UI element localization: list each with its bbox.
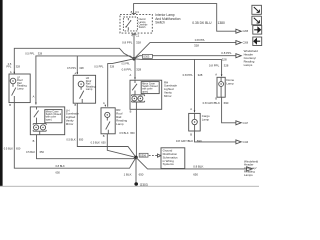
svg-text:Switch (Closed: Switch (Closed [142, 85, 158, 88]
svg-text:0.8 BLK: 0.8 BLK [193, 164, 203, 168]
wire: dome lamp drop [221, 59, 223, 76]
svg-text:0.5 PPL: 0.5 PPL [122, 63, 131, 65]
wire LH vanity B down and right [37, 135, 137, 159]
svg-text:328: 328 [194, 44, 199, 48]
svg-text:A: A [74, 71, 76, 75]
wire splice down to ground G303 [135, 157, 137, 183]
svg-text:B: B [33, 139, 35, 143]
svg-text:A: A [103, 101, 105, 105]
svg-text:open): open) [46, 119, 52, 121]
svg-text:with cover: with cover [142, 88, 153, 91]
svg-text:0.8 PPL: 0.8 PPL [183, 73, 194, 77]
open arrow to windshield header lamps [236, 54, 241, 58]
svg-text:650: 650 [193, 172, 198, 176]
open arrow C417 dome [236, 121, 241, 125]
svg-text:328: 328 [136, 67, 141, 71]
svg-text:with cover: with cover [46, 116, 57, 119]
svg-text:Switch (Closed: Switch (Closed [46, 113, 62, 116]
svg-text:650: 650 [40, 150, 45, 154]
wire: splice to C2 off-page arrow (upper right) [134, 43, 236, 59]
svg-text:Override: Override [139, 23, 149, 26]
LF roof rail reading lamp box [9, 74, 30, 103]
svg-text:1 BLK: 1 BLK [124, 172, 132, 176]
svg-text:0.8 GRY/BLK: 0.8 GRY/BLK [203, 101, 220, 105]
svg-text:0.35 DK BLU: 0.35 DK BLU [192, 21, 212, 25]
dome lamp B wire to C4 arrow [222, 97, 236, 123]
wire: splice up-left to LF reading lamp [14, 48, 134, 74]
wire: RR reading lamp feed [108, 59, 134, 107]
svg-text:Interior: Interior [139, 18, 146, 21]
svg-text:0.8 GRY/BLK: 0.8 GRY/BLK [176, 139, 193, 143]
wire RH vanity B down to splice [135, 109, 137, 157]
svg-text:690: 690 [224, 101, 229, 105]
svg-text:B: B [74, 103, 76, 107]
svg-text:Lamp: Lamp [17, 87, 24, 91]
interior lamp and multifunction switch dashed box [120, 14, 152, 33]
svg-text:328: 328 [79, 66, 84, 70]
switch symbol [126, 18, 130, 30]
svg-text:328: 328 [110, 64, 115, 68]
inner switch dashed box [123, 17, 137, 31]
off-page open arrow C268 (DK BLU) [236, 29, 241, 33]
nav icon box 1 [252, 5, 262, 14]
svg-text:328: 328 [224, 63, 229, 67]
svg-text:Lamp: Lamp [116, 122, 124, 126]
svg-text:0.5 PPL: 0.5 PPL [67, 66, 77, 70]
svg-text:Mirror: Mirror [66, 122, 74, 126]
page bottom border line [0, 186, 259, 187]
svg-text:Systems: Systems [163, 162, 175, 166]
wire: LR reading lamp feed [76, 56, 78, 74]
svg-text:0.5 BLK: 0.5 BLK [4, 147, 13, 151]
svg-text:A: A [190, 107, 192, 111]
svg-text:0.8 PPL: 0.8 PPL [122, 41, 133, 45]
nav icon box 4 (left arrow) [253, 37, 262, 46]
svg-text:A: A [129, 73, 131, 77]
ground distribution reference box [161, 148, 185, 169]
svg-text:0.5 BLK: 0.5 BLK [26, 150, 35, 154]
svg-text:0.5 BLK: 0.5 BLK [91, 140, 100, 144]
svg-text:Lamp: Lamp [226, 81, 234, 85]
wire RR lamp B down to splice [107, 134, 136, 158]
svg-text:C268: C268 [243, 43, 249, 45]
wire: splice right bus to dome lamp drop [134, 58, 222, 61]
splice label S303 [142, 54, 152, 58]
svg-text:0.8 PPL: 0.8 PPL [209, 63, 220, 67]
svg-text:0.5 PPL: 0.5 PPL [25, 52, 35, 56]
svg-text:0.8 PPL: 0.8 PPL [122, 67, 133, 71]
svg-text:0.5 BLK: 0.5 BLK [119, 131, 128, 135]
svg-text:650: 650 [56, 170, 61, 174]
svg-text:S303: S303 [143, 55, 150, 59]
wire pin4 down to splice [133, 33, 135, 59]
svg-text:Lamp: Lamp [202, 118, 210, 122]
svg-text:Lamps: Lamps [244, 63, 253, 67]
svg-text:650: 650 [139, 172, 144, 176]
svg-text:0.8 BLK: 0.8 BLK [56, 164, 65, 168]
svg-text:C416: C416 [243, 142, 249, 144]
svg-text:Lamp: Lamp [86, 87, 93, 91]
svg-text:B: B [215, 96, 217, 100]
svg-text:Mirror Cover: Mirror Cover [142, 83, 155, 86]
wire: splice to windshield header lamps [134, 56, 236, 59]
wire: left bus to LH vanity mirror [36, 56, 134, 105]
svg-text:S306: S306 [140, 153, 147, 157]
svg-text:328: 328 [16, 64, 21, 68]
svg-text:G303: G303 [140, 183, 148, 187]
svg-text:B: B [9, 103, 11, 107]
svg-text:328: 328 [136, 41, 141, 45]
svg-text:C417: C417 [243, 123, 249, 125]
svg-text:B: B [190, 132, 192, 136]
cargo lamp B wire to C4 arrow [195, 131, 236, 142]
wire splice to windshield header lamps (bottom) [136, 157, 247, 169]
ground G303 [134, 182, 138, 186]
svg-text:C1: C1 [136, 33, 140, 37]
svg-text:650: 650 [79, 138, 84, 142]
wire LR lamp B down and right [77, 103, 136, 157]
svg-text:Switch: Switch [155, 21, 165, 25]
svg-text:B: B [130, 110, 132, 114]
feed arrows at component pins [14, 72, 16, 74]
svg-text:328: 328 [198, 73, 203, 77]
svg-text:Mirror: Mirror [164, 94, 172, 98]
wire: RH vanity feed from splice [134, 59, 136, 79]
wire: cargo lamp feed [194, 59, 196, 112]
svg-text:0.8 PPL: 0.8 PPL [221, 51, 232, 55]
nav icon box 3 (right arrow) [253, 26, 262, 35]
page left border bar [0, 0, 3, 186]
nav icon box 2 [252, 16, 262, 25]
off-page open arrow C268 (PPL) [236, 41, 241, 45]
svg-text:Switch: Switch [139, 26, 146, 29]
wire LF lamp B down and right [14, 103, 136, 169]
svg-text:1380: 1380 [218, 21, 226, 25]
splice S306 node [134, 156, 138, 160]
svg-text:PPL: PPL [6, 65, 11, 69]
splice S303 node [132, 57, 135, 60]
svg-text:328: 328 [222, 58, 227, 62]
dashed reference line to ground distribution box [149, 155, 157, 157]
svg-text:650: 650 [16, 147, 21, 151]
svg-text:B: B [103, 134, 105, 138]
svg-text:650: 650 [101, 140, 106, 144]
LH sunshade lighted vanity mirror box [30, 107, 64, 135]
RR roof rail reading lamp box [101, 108, 115, 134]
open arrow C416 cargo [236, 140, 241, 144]
svg-text:0.5 PPL: 0.5 PPL [94, 64, 104, 68]
svg-text:Mirror Cover: Mirror Cover [46, 111, 59, 114]
svg-text:650: 650 [130, 131, 135, 135]
svg-text:A: A [33, 95, 35, 99]
svg-text:690: 690 [197, 139, 202, 143]
svg-text:328: 328 [38, 52, 43, 56]
svg-text:C268: C268 [243, 31, 249, 33]
svg-text:open): open) [142, 91, 148, 93]
wire: pin 8 C1 up and over to DK BLU off-page arrow [134, 4, 236, 32]
svg-text:Lamps: Lamps [244, 173, 253, 177]
svg-text:0.5 BLK: 0.5 BLK [66, 138, 75, 142]
svg-text:A: A [215, 73, 217, 77]
svg-text:0.8 PPL: 0.8 PPL [195, 38, 206, 42]
LR roof rail reading lamp box [73, 75, 95, 103]
